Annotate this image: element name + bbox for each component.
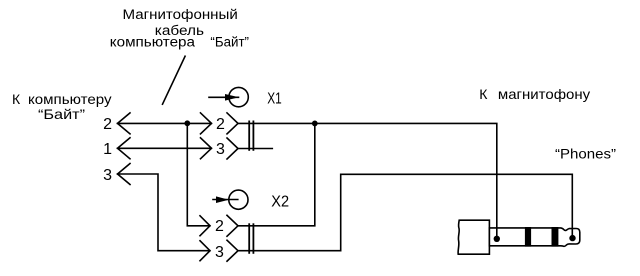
left connector pin 2 (contact + number)	[118, 113, 131, 134]
svg-text:X2: X2	[271, 194, 289, 211]
svg-text:3: 3	[216, 141, 225, 158]
svg-text:2: 2	[216, 116, 225, 133]
svg-text:1: 1	[103, 141, 112, 158]
solder joint: jack tip	[569, 235, 575, 241]
left connector pin 3 (contact + number)	[118, 164, 131, 185]
jack insulator band 2	[552, 227, 559, 247]
svg-text:3: 3	[215, 244, 224, 261]
label: left connector "К компьютеру Байт"	[12, 91, 112, 122]
wire: left pin 3 to X2 pin 3 (with arrowhead)	[118, 174, 210, 251]
wire: X1 pin 3 stub	[238, 148, 272, 150]
wire: left pin 2 to X1 pin 2 (with arrowhead)	[118, 122, 212, 124]
solder joint: jack sleeve	[494, 236, 500, 242]
junction J1 on pin-2 wire	[184, 120, 190, 126]
svg-text:2: 2	[103, 116, 112, 133]
svg-text:X1: X1	[267, 91, 282, 108]
wire: left pin 1 to X1 pin 3 (with arrowhead)	[118, 147, 212, 149]
svg-text:компьютеру: компьютеру	[28, 91, 112, 107]
svg-text:3: 3	[103, 167, 112, 184]
jack insulator band 1	[525, 227, 531, 247]
svg-text:магнитофону: магнитофону	[498, 86, 590, 102]
wire: junction J1 down to X2 pin 2 (with arrowhead)	[187, 123, 210, 226]
wire: X2 pin 2 up to junction J2	[238, 123, 315, 225]
svg-text:К: К	[12, 91, 21, 107]
annotation: cable title "Магнитофонный кабель компьютера Байт"	[110, 7, 249, 51]
svg-text:“Байт”: “Байт”	[38, 106, 85, 122]
X1 cable sheath double bars	[248, 121, 250, 149]
jack plug body (with break squiggle)	[458, 220, 489, 254]
connector X2 plug symbol (circle with arrow)	[213, 190, 248, 209]
svg-text:компьютера: компьютера	[110, 35, 195, 51]
wire: X2 pin 3 to jack tip	[238, 174, 572, 250]
svg-text:“Phones”: “Phones”	[555, 146, 616, 162]
wire: X1 pin 2 to jack sleeve (right then down)	[238, 123, 497, 238]
junction J2 on X1 pin-2 output	[312, 121, 318, 127]
connector X1 plug symbol (circle with arrow)	[209, 87, 248, 106]
X2 cable sheath double bars	[248, 224, 250, 253]
jack plug shaft and tip outline	[489, 228, 579, 246]
svg-text:Магнитофонный: Магнитофонный	[123, 7, 238, 23]
svg-text:2: 2	[215, 218, 224, 235]
svg-text:“Байт”: “Байт”	[210, 35, 249, 51]
left connector pin 1 (contact + number)	[118, 138, 131, 159]
leader line from title to cable	[163, 56, 186, 104]
svg-text:К: К	[479, 86, 488, 102]
